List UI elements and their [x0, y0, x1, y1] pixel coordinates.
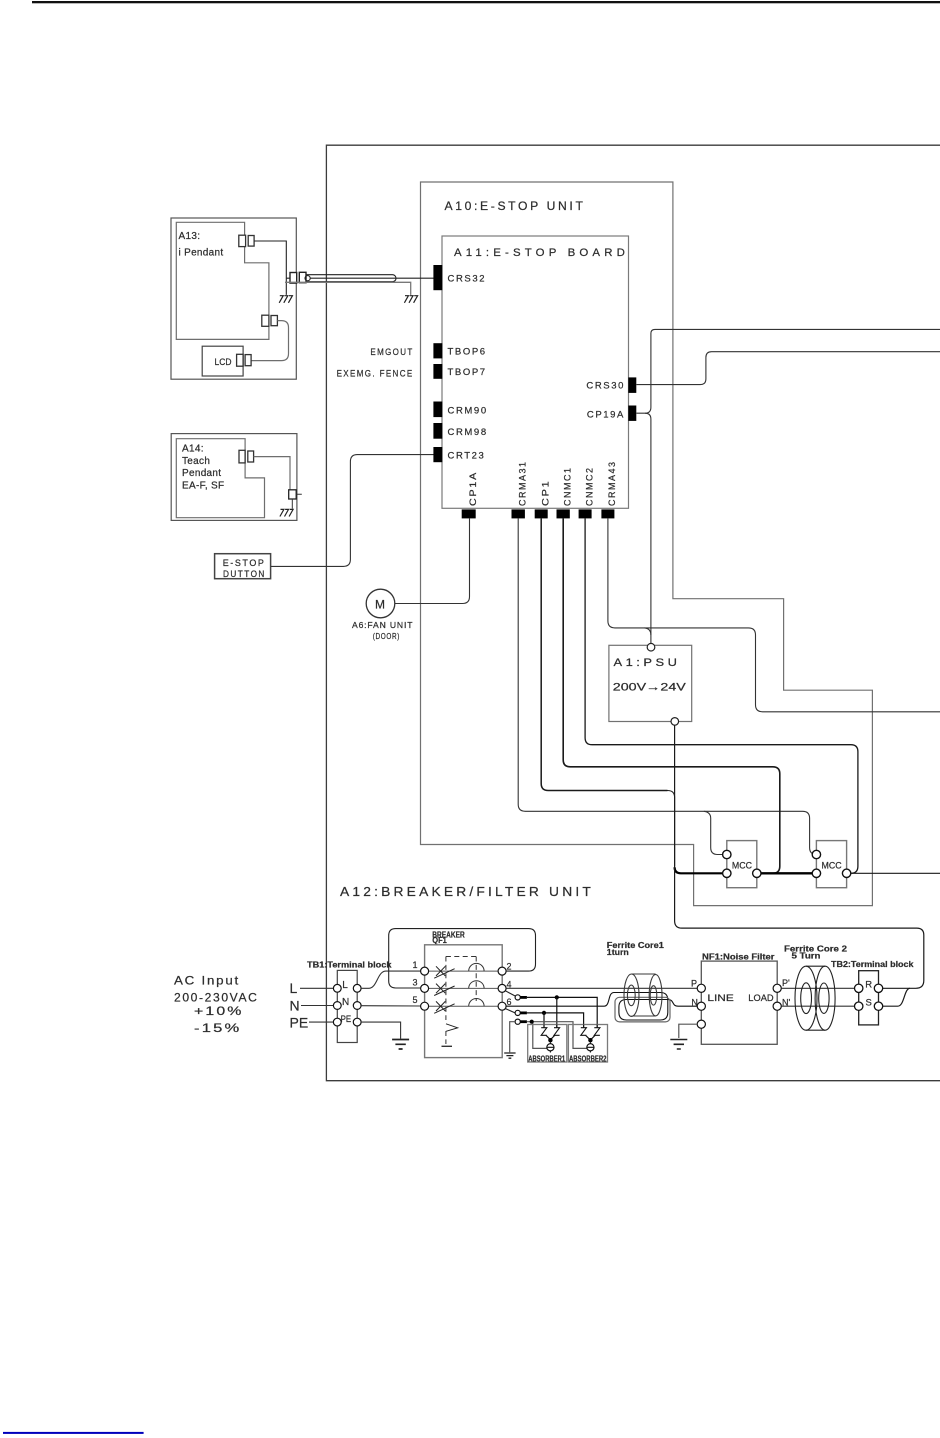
MCC2 coil terminal: [812, 850, 820, 858]
wire N to TB1: [301, 1005, 333, 1007]
branch to TB2 S: [883, 988, 910, 1006]
NF1 terminal N': [773, 1002, 781, 1010]
earth ground NF1: [670, 1040, 687, 1050]
wire A14 connector to TP cable plug: [254, 457, 290, 490]
chassis ground at cable right: [404, 296, 417, 303]
wire lower pair to LCD: [251, 321, 288, 361]
svg-text:CRMA43: CRMA43: [607, 461, 618, 507]
A1 PSU box: [609, 645, 692, 721]
wire CRMA43 to AC line: [608, 518, 940, 711]
svg-text:TB1:Terminal block: TB1:Terminal block: [307, 960, 392, 969]
svg-text:CP1: CP1: [541, 480, 552, 507]
thermal bump pole5: [469, 998, 484, 1006]
trip linkage dashed: [446, 957, 476, 1045]
svg-text:A14:: A14:: [182, 444, 204, 455]
breaker pole line 1-2: [429, 970, 498, 972]
svg-text:S: S: [866, 998, 872, 1009]
absorber2 varistor left: [581, 1025, 590, 1040]
svg-text:ABSORBER2: ABSORBER2: [569, 1054, 607, 1063]
ABSORBER2 box: [568, 1025, 607, 1063]
breaker pole line 3-4: [429, 987, 498, 989]
absorber2 screw terminal: [589, 1042, 591, 1043]
A14 TP cable plug: [289, 490, 297, 499]
svg-text:LINE: LINE: [707, 993, 733, 1004]
svg-text:Pendant: Pendant: [182, 468, 221, 479]
wire CRMA31 branch to MCC1 coil: [704, 811, 723, 854]
absorber1 junction dot: [548, 1038, 552, 1042]
MCC2 contactor box: [816, 841, 846, 888]
cable shield drain wire: [285, 282, 411, 295]
A13 connector J1b: [248, 236, 254, 247]
svg-text:N: N: [691, 997, 698, 1007]
breaker terminal 6: [498, 1002, 506, 1010]
connector CP19A: [628, 406, 636, 421]
ABSORBER1 box: [528, 1025, 567, 1063]
breaker terminal 3: [421, 984, 429, 992]
svg-text:+10%: +10%: [194, 1004, 244, 1018]
connector CRS30: [628, 377, 636, 393]
svg-text:QF1: QF1: [432, 936, 447, 945]
P' wire through core2: [781, 987, 855, 989]
junction dot 2: [542, 1011, 546, 1015]
TB2 terminal block box: [859, 971, 879, 1025]
top rule: [32, 1, 940, 3]
core1 turn loop gray: [615, 997, 670, 1022]
NF1 terminal P: [697, 984, 705, 992]
bold wire MCC1 to MCC2: [761, 872, 812, 874]
svg-text:MCC: MCC: [732, 860, 753, 870]
wire TB1 N to breaker pole 5: [361, 1005, 421, 1007]
svg-text:-15%: -15%: [194, 1021, 242, 1035]
svg-text:CRMA31: CRMA31: [518, 461, 529, 507]
absorber2 varistor right: [591, 1025, 600, 1040]
earth ground absorbers: [504, 1053, 515, 1058]
wire CRMA31 to MCC coils: [518, 518, 816, 854]
cable core wire to CRS32: [310, 277, 433, 279]
A13 connector J1a: [239, 235, 246, 246]
absorber feed wire 1: [527, 997, 597, 1027]
N line breaker 6 into core1: [506, 993, 697, 1021]
connector CRM90: [433, 402, 442, 418]
E-STOP button box: [215, 554, 271, 579]
trip arrow: [446, 1024, 458, 1032]
wire MCC2 out to right edge: [851, 872, 940, 874]
bold MCC feed wire: [675, 867, 723, 873]
ground bus dot: [530, 1020, 534, 1024]
svg-text:3: 3: [413, 978, 418, 988]
NF1 terminal ground: [697, 1020, 705, 1028]
svg-text:CNMC2: CNMC2: [584, 467, 595, 507]
A14 Teach Pendant outer box: [171, 434, 297, 521]
svg-text:CRS30: CRS30: [586, 380, 625, 391]
A13 inner pendant body: [176, 222, 269, 339]
chassis ground under A13 cable connector: [279, 296, 292, 303]
wire CNMC1 to MCC1 contact: [563, 518, 780, 873]
bottom blue rule: [3, 1432, 144, 1434]
svg-text:5 Turn: 5 Turn: [792, 952, 821, 961]
page frame: [326, 145, 940, 1080]
connector CRM98: [433, 423, 442, 439]
absorber1 varistor left: [541, 1025, 550, 1040]
thermal bump pole3: [469, 981, 484, 989]
connector CP1: [535, 509, 548, 518]
svg-text:i Pendant: i Pendant: [179, 247, 224, 258]
svg-text:(DOOR): (DOOR): [373, 632, 400, 641]
svg-text:TB2:Terminal block: TB2:Terminal block: [831, 960, 914, 969]
connector CNMC1: [557, 509, 570, 518]
pole6 tap diagonal: [505, 1009, 516, 1014]
fillet CRMA43 to PSU input: [645, 628, 651, 635]
cable plug rect 1: [290, 273, 297, 284]
MCC1 contact in terminal: [723, 869, 731, 877]
MCC1 contactor box: [727, 841, 757, 888]
crimp terminal 1: [515, 995, 520, 1000]
branch to absorber1 left: [543, 1013, 545, 1028]
svg-text:ABSORBER1: ABSORBER1: [528, 1054, 565, 1063]
MCC2 contact out terminal: [842, 869, 850, 877]
A13 lower connector pair: [262, 315, 269, 326]
absorber feed wire 2: [527, 1013, 584, 1028]
svg-text:EXEMG. FENCE: EXEMG. FENCE: [337, 368, 414, 379]
ferrite core1 body: [624, 974, 662, 1016]
shielded cable tube to CRS32: [306, 275, 396, 282]
wire CNMC2 to MCC2 contact: [585, 518, 858, 873]
svg-text:EMGOUT: EMGOUT: [370, 347, 413, 358]
absorber ground bus: [527, 1022, 587, 1049]
svg-text:M: M: [375, 598, 385, 612]
breaker contact X pole1: [434, 966, 454, 978]
A14 connector pair: [239, 450, 245, 463]
PSU input terminal circle: [647, 643, 655, 651]
svg-text:LOAD: LOAD: [748, 993, 773, 1004]
LCD box: [202, 346, 243, 376]
svg-text:P: P: [691, 979, 697, 989]
breaker contact X pole5: [434, 1001, 454, 1013]
absorber2 junction dot: [588, 1038, 592, 1042]
cable end eyelet: [305, 276, 310, 281]
wire PSU output to TB2 R: [675, 725, 924, 988]
TB2 R terminals: [855, 984, 863, 992]
wire CP1 to MCC feed: [541, 518, 667, 790]
thermal bump pole1: [469, 963, 484, 971]
absorber1 screw terminal: [549, 1042, 551, 1043]
wire CRS30 to right edge: [636, 352, 940, 385]
chassis ground under A14 plug: [280, 509, 293, 516]
LCD connector pair: [237, 354, 244, 366]
TB1 L terminals: [333, 984, 341, 992]
wire CP19A to right edge and PSU: [636, 329, 940, 413]
TB1 PE terminals: [333, 1018, 341, 1026]
svg-text:200V→24V: 200V→24V: [613, 682, 687, 694]
wire PE to TB1: [309, 1021, 333, 1023]
svg-text:A6:FAN UNIT: A6:FAN UNIT: [352, 621, 413, 630]
MCC2 contact in terminal: [812, 869, 820, 877]
svg-text:TBOP6: TBOP6: [448, 347, 487, 358]
breaker terminal 1: [421, 967, 429, 975]
breaker pole line 5-6: [429, 1005, 498, 1007]
earth ground PE: [392, 1040, 409, 1050]
trip base bar: [442, 1045, 453, 1047]
svg-text:CRM90: CRM90: [448, 406, 488, 417]
svg-text:PE: PE: [341, 1014, 352, 1024]
svg-text:NF1:Noise Filter: NF1:Noise Filter: [702, 953, 775, 962]
svg-text:CRT23: CRT23: [448, 451, 486, 462]
junction dot 1: [555, 995, 559, 999]
NF1 terminal N: [697, 1002, 705, 1010]
svg-text:A1:PSU: A1:PSU: [614, 657, 681, 669]
svg-text:A10:E-STOP UNIT: A10:E-STOP UNIT: [445, 201, 586, 213]
TB1 terminal block box: [337, 970, 357, 1042]
wire J1b to cable connector: [254, 241, 290, 295]
NF1 terminal P': [773, 984, 781, 992]
PSU output terminal circle: [671, 718, 679, 726]
A14 plug stub: [292, 494, 302, 509]
connector CRT23: [433, 447, 442, 462]
fan motor M circle: [366, 589, 395, 618]
svg-text:PE: PE: [290, 1014, 309, 1030]
svg-text:Teach: Teach: [182, 456, 210, 467]
wire L to TB1: [300, 987, 333, 989]
TB2 S terminals: [855, 1002, 863, 1010]
connector CRS32: [433, 265, 442, 290]
wire TB1 L to breaker pole 1: [361, 971, 421, 988]
TB1 N terminals: [333, 1002, 341, 1010]
svg-text:CRS32: CRS32: [448, 274, 487, 285]
connector CRMA43: [601, 509, 614, 518]
svg-text:L: L: [342, 980, 348, 991]
svg-text:TBOP7: TBOP7: [448, 367, 487, 378]
MCC1 contact out terminal: [753, 869, 761, 877]
svg-text:CP19A: CP19A: [587, 409, 625, 420]
svg-text:5: 5: [413, 995, 418, 1005]
svg-text:A13:: A13:: [179, 231, 201, 242]
svg-text:N: N: [290, 998, 300, 1014]
svg-text:R: R: [865, 980, 872, 991]
NF1 noise filter box: [701, 961, 777, 1044]
crimp terminal 3 ground: [515, 1019, 520, 1024]
connector TBOP7: [433, 364, 442, 379]
A13 i Pendant outer box: [171, 218, 296, 379]
P line breaker 4 to NF1: [506, 987, 697, 989]
svg-text:LCD: LCD: [215, 357, 232, 368]
svg-text:CP1A: CP1A: [468, 471, 479, 506]
wire TB1 PE to earth: [361, 1022, 401, 1039]
A14 inner body: [176, 439, 264, 518]
svg-text:A11:E-STOP BOARD: A11:E-STOP BOARD: [454, 247, 629, 259]
branch to absorber1 right: [556, 997, 558, 1027]
wire CP1A to fan motor: [395, 518, 470, 603]
ferrite core2 body: [795, 966, 835, 1030]
N' wire through core2: [781, 1005, 855, 1007]
absorber1 varistor right: [550, 1025, 559, 1040]
svg-text:1turn: 1turn: [607, 948, 629, 957]
breaker terminal 4: [498, 984, 506, 992]
svg-text:CNMC1: CNMC1: [562, 467, 573, 507]
wire E-STOP button to CRT23: [271, 455, 434, 567]
svg-text:AC Input: AC Input: [174, 974, 240, 988]
svg-text:EA-F, SF: EA-F, SF: [182, 481, 224, 492]
connector CP1A: [462, 509, 476, 518]
A10/A12 unit boundary outline: [421, 182, 873, 906]
connector CNMC2: [579, 509, 592, 518]
svg-text:L: L: [290, 980, 298, 996]
MCC1 coil terminal: [723, 850, 731, 858]
svg-text:N: N: [342, 997, 349, 1008]
svg-text:200-230VAC: 200-230VAC: [174, 991, 259, 1005]
breaker QF1 box: [425, 945, 503, 1058]
NF1 ground wire: [679, 1024, 697, 1038]
A11 board box: [442, 236, 629, 508]
svg-text:MCC: MCC: [822, 860, 843, 870]
svg-text:6: 6: [507, 997, 512, 1007]
svg-text:DUTTON: DUTTON: [223, 569, 266, 579]
cable plug rect 2: [299, 272, 306, 282]
svg-text:CRM98: CRM98: [448, 427, 488, 438]
jumper pole2 to pole3: [389, 929, 536, 988]
svg-text:P': P': [782, 978, 790, 988]
ground wire crimp3: [510, 1022, 515, 1053]
pole4 tap diagonal: [505, 991, 516, 997]
crimp terminal 2: [515, 1010, 520, 1015]
svg-text:2: 2: [507, 962, 512, 972]
svg-text:A12:BREAKER/FILTER UNIT: A12:BREAKER/FILTER UNIT: [340, 884, 594, 899]
breaker contact X pole3: [434, 984, 454, 996]
svg-text:1: 1: [413, 960, 418, 970]
breaker terminal 2: [498, 967, 506, 975]
connector TBOP6: [433, 343, 442, 358]
breaker terminal 5: [421, 1002, 429, 1010]
svg-text:E-STOP: E-STOP: [223, 558, 266, 568]
connector CRMA31: [512, 509, 525, 518]
